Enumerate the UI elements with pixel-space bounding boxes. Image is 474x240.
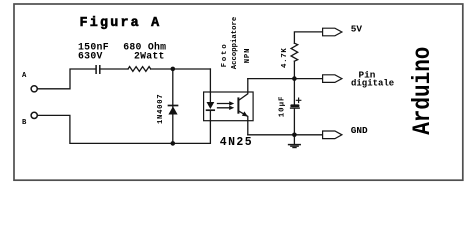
svg-text:Figura A: Figura A [80, 16, 162, 31]
svg-text:2Watt: 2Watt [134, 51, 165, 62]
svg-text:digitale: digitale [351, 79, 394, 89]
svg-text:Accoppiatore: Accoppiatore [231, 16, 239, 69]
svg-text:4.7K: 4.7K [281, 47, 289, 68]
svg-text:4N25: 4N25 [220, 136, 253, 149]
svg-text:10µF: 10µF [279, 96, 287, 118]
svg-text:1N4007: 1N4007 [157, 94, 165, 124]
svg-text:Foto: Foto [221, 42, 229, 67]
svg-text:5V: 5V [351, 23, 363, 34]
svg-text:Arduino: Arduino [408, 47, 436, 135]
svg-text:NPN: NPN [244, 48, 252, 64]
svg-text:GND: GND [351, 125, 368, 136]
svg-text:630V: 630V [78, 51, 103, 62]
svg-text:B: B [22, 119, 27, 127]
svg-text:A: A [22, 72, 27, 80]
